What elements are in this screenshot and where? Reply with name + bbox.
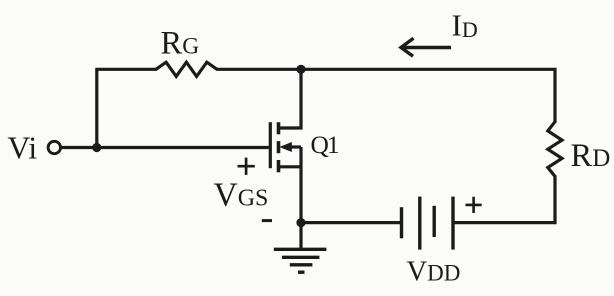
svg-text:VDD: VDD	[407, 256, 461, 287]
wire: top rail right segment, corner down to RD	[216, 69, 555, 122]
wire: source lead horizontal from Q1	[279, 165, 302, 168]
wire: drain lead from top rail into Q1	[279, 69, 302, 128]
transistor Q1 body arrowhead	[279, 142, 292, 152]
wire: source/body lead vertical down to bottom node	[299, 147, 302, 223]
wire: right rail lower (RD to bottom corner), corner to battery +	[453, 175, 555, 222]
current ID arrowhead	[401, 38, 414, 56]
svg-text:Vi: Vi	[8, 131, 38, 166]
transistor Q1 body lead shaft	[290, 145, 301, 148]
wire: left vertical from node A up to top rail, corner to RG	[97, 69, 157, 147]
svg-text:Q1: Q1	[311, 130, 339, 159]
battery VDD plate 3 (short)	[433, 206, 436, 237]
ground bar 3	[290, 263, 313, 266]
plus sign of VDD battery	[466, 197, 482, 213]
current ID arrow shaft	[402, 46, 451, 49]
transistor Q1 gate bar	[269, 122, 272, 168]
battery VDD plate 2 (long)	[418, 197, 421, 250]
ground stub	[299, 223, 302, 249]
transistor Q1 channel segment (drain)	[277, 122, 281, 134]
ground bar 4	[298, 271, 305, 274]
wire: Vi terminal to gate of Q1	[61, 146, 269, 149]
wire: bottom rail from source node to battery -	[301, 221, 400, 224]
ground bar 1	[274, 248, 327, 251]
node drain junction dot (top rail)	[296, 65, 305, 74]
node source junction dot (bottom rail / ground)	[296, 218, 305, 227]
ground bar 2	[282, 256, 319, 259]
resistor RD zigzag	[548, 122, 562, 177]
transistor Q1 channel segment (source)	[277, 160, 281, 172]
node A junction dot (Vi / gate)	[92, 143, 101, 152]
transistor Q1 channel segment (body)	[277, 141, 281, 153]
input terminal circle (Vi)	[48, 141, 60, 153]
plus sign of VGS (gate side)	[238, 158, 255, 175]
battery VDD plate 1 (short, negative)	[400, 207, 403, 238]
battery VDD plate 4 (long, positive)	[451, 197, 454, 250]
minus sign of VGS (source side)	[262, 219, 272, 222]
resistor RG zigzag	[156, 62, 217, 76]
